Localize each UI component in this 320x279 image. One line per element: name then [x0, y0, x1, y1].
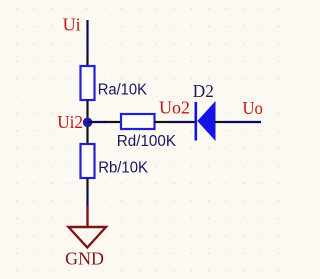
- wire: [86, 187, 88, 207]
- svg-text:Uo2: Uo2: [159, 97, 190, 117]
- diode D2: [196, 101, 224, 141]
- wire: [169, 121, 195, 123]
- ground GND: [69, 206, 107, 248]
- wire: [224, 121, 261, 123]
- svg-text:Ui2: Ui2: [57, 112, 83, 132]
- resistor Rb: [81, 127, 95, 188]
- svg-text:Ra/10K: Ra/10K: [98, 81, 148, 98]
- node Ui2 junction: [83, 118, 93, 128]
- svg-text:GND: GND: [65, 248, 104, 268]
- wire: [88, 121, 106, 123]
- svg-text:Rb/10K: Rb/10K: [98, 160, 149, 177]
- wire: [86, 20, 88, 58]
- svg-text:Rd/100K: Rd/100K: [117, 133, 177, 150]
- resistor Rd: [105, 114, 169, 129]
- svg-text:D2: D2: [193, 81, 214, 101]
- svg-text:Uo: Uo: [243, 98, 264, 118]
- resistor Ra: [81, 57, 95, 118]
- svg-text:Ui: Ui: [63, 15, 81, 35]
